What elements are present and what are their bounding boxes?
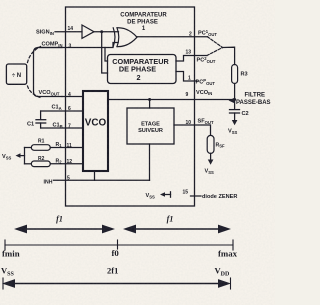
FILTRE PASSE-BAS annotation [229, 93, 271, 106]
pin 3 wire COMP_IN [38, 42, 118, 50]
XOR gate phase comparator 1 [113, 28, 137, 47]
pin 6 wire C1A [41, 105, 83, 113]
dashed selection triangle [207, 37, 223, 56]
comparator 2 output wire to pin 1 [176, 72, 197, 82]
frequency axis f1 labels [56, 215, 173, 224]
junction to source follower [148, 98, 151, 108]
pin 9 wire VCO_IN [108, 90, 235, 100]
pin 5 wire INH [44, 176, 150, 186]
label COMPARATEUR DE PHASE 1 [120, 13, 167, 32]
ETAGE SUIVEUR box [127, 108, 174, 144]
comparator 2 output wire to pin 13 [176, 56, 207, 62]
resistor R3 [232, 65, 248, 84]
pin 12 wire R2 [50, 158, 83, 165]
internal VSS annotation at pin 15 [146, 192, 171, 200]
wire R3 to filter node [234, 84, 236, 100]
pin 11 wire R1 [50, 142, 83, 149]
wire comp_in to comparator 2 upper input [105, 48, 108, 62]
ground VSS below C2 [228, 120, 238, 135]
pin 2 wire PC1_OUT [137, 29, 217, 37]
capacitor C2 [230, 100, 249, 121]
pin 14 wire SIGN_IN [36, 26, 82, 36]
IC package outline [66, 7, 195, 206]
pin 1 labels PCP_OUT [188, 76, 215, 86]
wire signal to comparator 2 lower input [102, 32, 108, 73]
comparator 2 box [108, 55, 177, 84]
wire buffer output to XOR [94, 31, 119, 33]
ground VSS below RSF [205, 153, 215, 175]
frequency axis arrow fmin-f0 [14, 225, 115, 234]
follower inhibit stub [149, 144, 151, 180]
pin 7 wire C1B [41, 123, 83, 130]
resistor R2 [31, 156, 50, 167]
VCO inhibit stub [94, 171, 96, 180]
pin 13 labels PC2_OUT [186, 50, 216, 64]
wire apex to R3 [223, 47, 235, 64]
resistor R1 [31, 138, 50, 150]
pin 4 wire VCO_OUT [39, 90, 84, 98]
pin 10 wire SF_OUT [174, 119, 214, 136]
VCO box [83, 91, 108, 171]
lock range axis arrow 2f1 [2, 278, 231, 289]
pin 15 zener diode [183, 190, 238, 201]
filter node junction [233, 98, 236, 101]
resistor RSF [207, 135, 225, 153]
amplifier A1 input buffer [82, 25, 94, 38]
frequency axis arrow f0-fmax [123, 225, 231, 234]
divider box (divide by N) [6, 47, 40, 98]
VSS left supply [2, 148, 31, 164]
junction node signal [100, 30, 103, 33]
external feedback wire VCO_OUT to COMP_IN [34, 48, 63, 97]
capacitor C1 [27, 111, 46, 128]
frequency baseline with ticks [5, 240, 233, 250]
